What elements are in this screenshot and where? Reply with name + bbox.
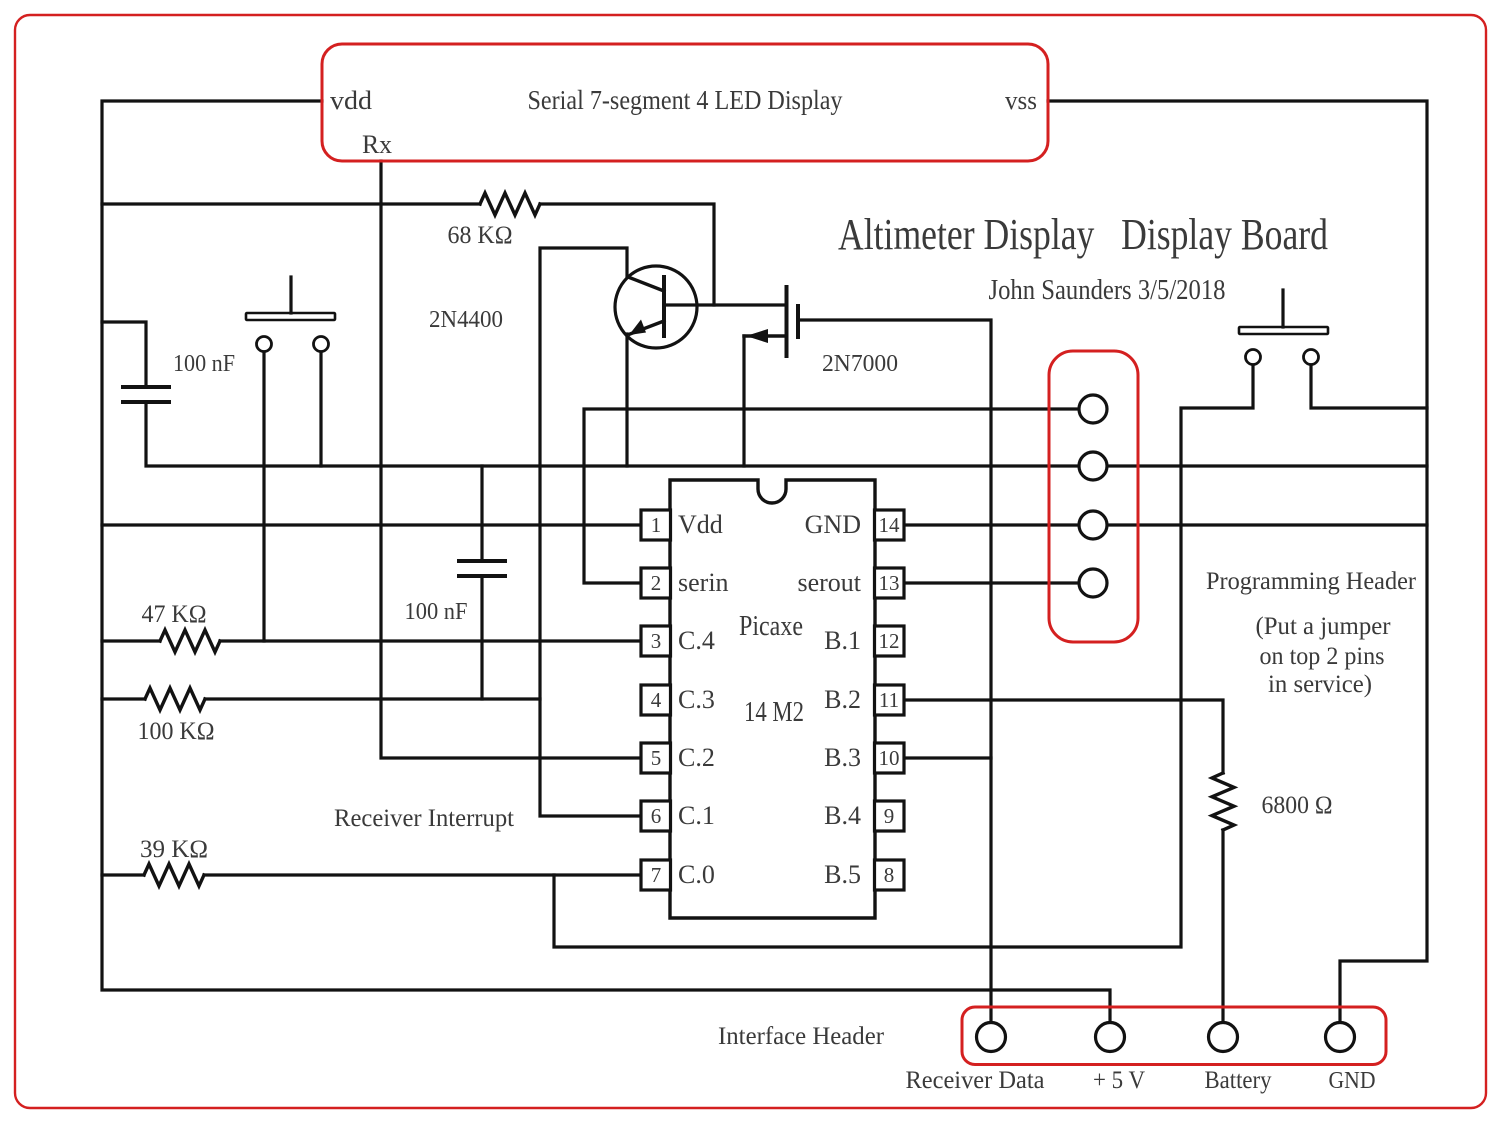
transistor Q1 bar [662,277,666,336]
svg-text:7: 7 [651,863,662,887]
svg-text:4: 4 [651,688,662,712]
svg-text:Vdd: Vdd [678,510,723,539]
wire capacitor C2 upper lead [480,466,483,560]
wire 47K to pin3 C.4 [220,639,641,642]
pin 10 box [875,743,905,773]
wire Q2 source to ground rail [742,336,745,466]
svg-text:C.4: C.4 [678,626,715,655]
svg-text:vdd: vdd [330,86,372,115]
svg-text:12: 12 [879,629,900,653]
svg-text:B.3: B.3 [824,743,861,772]
svg-text:1: 1 [651,513,662,537]
pushbutton S1 stem [289,277,292,313]
svg-text:2: 2 [651,571,662,595]
svg-text:Picaxe: Picaxe [739,611,803,642]
svg-text:Rx: Rx [362,130,392,159]
svg-text:vss: vss [1005,86,1037,115]
interface pin Battery [1209,1023,1238,1052]
wire pushbutton S2 right terminal to ground frame [1311,357,1427,408]
capacitor C1 100nF plates [123,385,169,389]
pin 13 box [875,568,905,598]
pin 12 box [875,626,905,656]
svg-text:Receiver Data: Receiver Data [906,1067,1045,1094]
wire 68K to 2N4400 collector [540,204,714,305]
pin 4 box [641,685,671,715]
pushbutton S2 plate [1239,327,1328,334]
svg-text:6: 6 [651,804,662,828]
svg-text:Programming Header: Programming Header [1206,568,1417,595]
pin 7 box [641,860,671,890]
svg-text:in service): in service) [1268,671,1372,698]
svg-text:10: 10 [879,746,900,770]
transistor Q2 2N7000 gate bar [785,287,789,356]
wire pin13 serout to programming header pin4 [904,581,1079,584]
wire 100K to receiver-interrupt net [205,697,540,700]
svg-text:5: 5 [651,746,662,770]
wire ground rail (cap to right frame) [146,403,1427,466]
svg-text:serout: serout [797,568,861,597]
resistor R3 100K [145,688,205,710]
wire vdd to 47K [102,639,160,642]
pushbutton S1 left terminal [257,337,272,352]
resistor R4 39K [144,864,204,886]
pin 3 box [641,626,671,656]
resistor R1 68K [480,193,540,215]
pushbutton S2 right terminal [1304,350,1319,365]
svg-text:Receiver Interrupt: Receiver Interrupt [334,805,514,832]
transistor Q2 source arrow [746,329,768,343]
wire vdd to 39K [102,873,144,876]
programming header pin 2 (ground) [1079,452,1107,480]
wire vdd stub to capacitor C1 [102,322,146,386]
pushbutton S1 right terminal [314,337,329,352]
pushbutton S1 right terminal wire to ground rail [319,351,322,466]
interface header box (red) [962,1007,1386,1065]
svg-text:Interface Header: Interface Header [718,1023,885,1050]
wire vdd to pin1 Vdd [102,523,641,526]
pushbutton S2 stem [1281,290,1284,327]
wire 2N4400 emitter to ground rail [625,334,628,466]
programming header pin 3 (gnd) [1079,511,1107,539]
svg-text:(Put a jumper: (Put a jumper [1256,613,1392,640]
svg-text:C.2: C.2 [678,743,715,772]
interface pin Receiver Data [977,1023,1006,1052]
pin 5 box [641,743,671,773]
svg-text:14: 14 [879,513,901,537]
pushbutton S1 plate [246,313,335,320]
wire receiver interrupt: 2N4400 base to pin6 C.1 [540,248,641,816]
wire vdd rail to 68K resistor [102,202,480,205]
programming header pin 1 (serin) [1079,395,1107,423]
wire 39K to pin7 C.0 [204,873,641,876]
svg-text:100 nF: 100 nF [173,351,235,377]
pin 9 box [875,801,905,831]
wire pin10 B.3 to receiver data line [904,756,991,759]
wire serin: pin2 up to programming header pin1 [584,409,1079,583]
pin 11 box [875,685,905,715]
svg-text:B.4: B.4 [824,801,861,830]
wire capacitor C2 lower lead to 100K line [480,576,483,699]
op-amp U1 Picaxe 14M2 body [670,480,875,918]
pushbutton S1 left terminal wire to C.4 line [262,351,265,641]
svg-text:B.1: B.1 [824,626,861,655]
svg-text:3: 3 [651,629,662,653]
svg-text:9: 9 [884,804,895,828]
wire pin11 B.2 to 6800 resistor [904,700,1223,773]
wire Q2 drain / receiver data [799,320,991,1030]
svg-text:C.3: C.3 [678,685,715,714]
transistor Q2 source lead [744,334,785,337]
svg-text:Serial 7-segment 4 LED Display: Serial 7-segment 4 LED Display [528,85,843,115]
wire vss net: top-right, right frame, jog to GND header pin [1048,101,1427,1030]
resistor R2 47K [160,630,220,652]
capacitor C2 100nF plates [459,559,505,563]
wire pin14 GND to right frame [904,523,1427,526]
svg-text:2N4400: 2N4400 [429,307,503,333]
transistor Q1 emitter arrow [629,320,646,336]
interface pin +5V [1096,1023,1125,1052]
interface pin GND [1326,1023,1355,1052]
svg-text:John Saunders 3/5/2018: John Saunders 3/5/2018 [989,275,1226,306]
svg-text:47 KΩ: 47 KΩ [142,601,207,628]
svg-text:GND: GND [805,510,861,539]
svg-text:2N7000: 2N7000 [822,351,898,377]
svg-text:C.1: C.1 [678,801,715,830]
transistor Q1 2N4400 body [615,266,697,348]
wire Q1 collector to Q2 gate [664,303,785,306]
programming header pin 4 (serout) [1079,569,1107,597]
svg-text:B.5: B.5 [824,860,861,889]
svg-text:Altimeter Display Display Bo: Altimeter Display Display Board [838,210,1328,259]
svg-text:100 nF: 100 nF [405,599,468,625]
pin 1 box [641,510,671,540]
wire 6800 to Battery header pin [1221,830,1224,1030]
transistor Q1 emitter diagonal [630,321,664,334]
resistor R5 6800 [1212,773,1234,830]
svg-text:39 KΩ: 39 KΩ [140,836,208,863]
svg-text:68 KΩ: 68 KΩ [448,222,513,249]
svg-text:6800 Ω: 6800 Ω [1262,792,1333,819]
pin 2 box [641,568,671,598]
svg-text:14 M2: 14 M2 [744,697,804,728]
svg-text:11: 11 [879,688,899,712]
svg-text:100 KΩ: 100 KΩ [138,718,215,745]
wire vdd net: top-left, left frame, bottom frame, +5V drop [102,101,1110,1030]
svg-text:Battery: Battery [1205,1067,1272,1094]
pin 6 box [641,801,671,831]
programming header box (red) [1049,351,1138,642]
pin 8 box [875,860,905,890]
svg-text:serin: serin [678,568,729,597]
wire vdd to 100K [102,697,145,700]
wire C.0 to pushbutton S2 left terminal [554,357,1253,947]
svg-text:C.0: C.0 [678,860,715,889]
svg-text:GND: GND [1329,1068,1376,1094]
svg-text:13: 13 [879,571,900,595]
display module box (red) [322,44,1048,161]
svg-text:+ 5 V: + 5 V [1093,1067,1145,1094]
svg-text:on top 2 pins: on top 2 pins [1260,643,1385,670]
pushbutton S2 left terminal [1246,350,1261,365]
svg-text:8: 8 [884,863,895,887]
transistor Q2 channel bar [796,306,800,337]
pin 14 box [875,510,905,540]
transistor Q1 base diagonal [628,277,664,291]
wire Rx from display to pin5 C.2 [381,161,641,758]
svg-text:B.2: B.2 [824,685,861,714]
